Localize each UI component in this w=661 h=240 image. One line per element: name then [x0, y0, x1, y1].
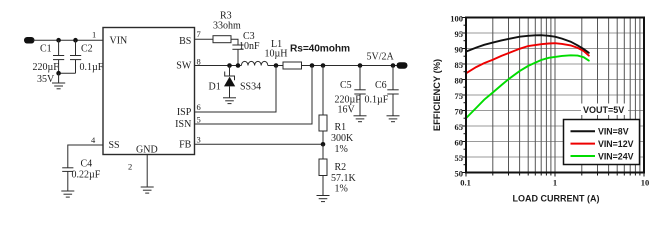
ground C5 [354, 116, 367, 122]
wire GND pin2 [146, 155, 148, 188]
svg-text:10nF: 10nF [239, 41, 260, 52]
wire FB pin3 [195, 143, 324, 145]
resistor R1 [319, 66, 327, 145]
svg-text:ISN: ISN [175, 119, 191, 130]
svg-text:1: 1 [553, 178, 557, 188]
ground input [52, 73, 65, 89]
y axis tick labels [450, 13, 463, 178]
svg-text:C6: C6 [375, 80, 387, 91]
wire SS pin4 [68, 145, 103, 168]
ground R2 [317, 196, 330, 202]
capacitor C4 [62, 168, 73, 191]
svg-text:300K: 300K [331, 133, 354, 144]
node C5 junction [358, 63, 363, 68]
node C1 top junction [56, 38, 61, 43]
svg-text:D1: D1 [209, 82, 221, 93]
svg-text:GND: GND [136, 145, 158, 156]
svg-text:SW: SW [176, 60, 192, 71]
svg-text:ISP: ISP [177, 107, 192, 118]
svg-text:4: 4 [91, 135, 96, 145]
node C3 junction [236, 63, 241, 68]
svg-text:2: 2 [128, 162, 132, 172]
svg-text:VIN=12V: VIN=12V [598, 139, 634, 149]
chart vertical gridlines [493, 18, 640, 173]
input terminal [24, 37, 35, 44]
ground C6 [387, 116, 400, 122]
svg-text:R1: R1 [335, 122, 347, 133]
svg-text:C5: C5 [340, 80, 352, 91]
svg-text:10: 10 [641, 178, 650, 188]
node C1 bottom junction [56, 71, 61, 76]
output terminal [397, 62, 408, 68]
svg-text:VIN=8V: VIN=8V [598, 127, 629, 137]
svg-text:C1: C1 [40, 44, 52, 55]
legend box [564, 120, 640, 165]
svg-text:1%: 1% [335, 184, 348, 195]
diode D1 SS34 schottky [224, 66, 235, 98]
svg-text:C2: C2 [81, 44, 93, 55]
x axis tick labels [460, 178, 649, 188]
wire C1-C2 bottom [59, 72, 76, 74]
svg-text:VOUT=5V: VOUT=5V [583, 105, 624, 115]
chart axis ticks [462, 18, 644, 177]
capacitor C3 [232, 45, 243, 66]
chart: efficiency vs load current [432, 13, 649, 203]
svg-text:5V/2A: 5V/2A [367, 52, 395, 63]
svg-text:220µF: 220µF [33, 62, 60, 73]
svg-text:70: 70 [455, 106, 464, 116]
svg-text:BS: BS [179, 36, 191, 47]
node C6 junction [391, 63, 396, 68]
node D1 junction [227, 63, 232, 68]
svg-text:FB: FB [179, 139, 192, 150]
wire BS pin7 [195, 38, 214, 40]
chart plot border [466, 18, 644, 173]
wire R3 to C3 [231, 39, 238, 45]
curve VIN=8V black [466, 35, 589, 53]
svg-text:R2: R2 [335, 162, 347, 173]
svg-text:1%: 1% [335, 144, 348, 155]
svg-text:85: 85 [455, 60, 464, 70]
node C2 top junction [73, 38, 78, 43]
curve VIN=12V red [466, 43, 589, 73]
svg-text:SS: SS [109, 140, 120, 151]
svg-text:0.1µF: 0.1µF [365, 95, 389, 106]
svg-text:Rs=40mohm: Rs=40mohm [290, 44, 350, 55]
legend line VIN=12V [571, 143, 596, 145]
svg-text:EFFICIENCY (%): EFFICIENCY (%) [432, 59, 442, 131]
svg-text:0.1µF: 0.1µF [80, 62, 104, 73]
svg-text:90: 90 [455, 44, 464, 54]
svg-text:5: 5 [197, 114, 201, 124]
op-amp U1 IC body [103, 28, 195, 155]
legend line VIN=24V [571, 155, 596, 157]
ground D1 [223, 98, 236, 104]
svg-text:VIN=24V: VIN=24V [598, 151, 634, 161]
capacitor C2 [70, 40, 81, 73]
svg-text:65: 65 [455, 122, 464, 132]
wire Rs to output [302, 65, 398, 67]
ground IC [141, 187, 154, 193]
svg-text:100: 100 [450, 13, 463, 23]
svg-text:LOAD CURRENT (A): LOAD CURRENT (A) [513, 194, 600, 204]
svg-text:SS34: SS34 [240, 82, 261, 93]
wire input rail [33, 39, 103, 41]
svg-text:6: 6 [197, 102, 201, 112]
svg-text:VIN: VIN [110, 36, 128, 47]
capacitor C5 [354, 66, 365, 116]
svg-text:1: 1 [92, 30, 96, 40]
resistor Rs [283, 62, 302, 69]
svg-text:80: 80 [455, 75, 464, 85]
svg-text:75: 75 [455, 91, 464, 101]
svg-text:C4: C4 [81, 159, 93, 170]
svg-text:10µH: 10µH [265, 49, 288, 60]
chart horizontal gridlines [466, 33, 644, 157]
node ISN tap junction [310, 63, 315, 68]
svg-text:0.22µF: 0.22µF [72, 170, 101, 181]
wire L1 to Rs [268, 65, 283, 67]
ground C4 [61, 191, 74, 197]
svg-text:55: 55 [455, 153, 464, 163]
legend line VIN=8V [571, 130, 596, 132]
svg-text:60: 60 [455, 137, 464, 147]
node ISP tap junction [274, 63, 279, 68]
label VOUT=5V [581, 104, 628, 116]
svg-text:3: 3 [197, 134, 201, 144]
capacitor C1 [53, 40, 64, 73]
svg-text:95: 95 [455, 29, 464, 39]
wire ISN [195, 66, 313, 125]
svg-text:0.1: 0.1 [460, 178, 471, 188]
svg-text:16V: 16V [338, 105, 356, 116]
capacitor C6 [387, 66, 398, 116]
svg-text:7: 7 [197, 29, 201, 39]
resistor R2 [319, 144, 327, 195]
wire ISP [195, 66, 277, 113]
wire SW rail [195, 65, 242, 67]
svg-text:33ohm: 33ohm [213, 21, 241, 32]
resistor R3 [213, 36, 231, 43]
inductor L1 [241, 61, 267, 65]
node FB junction [321, 142, 326, 147]
svg-text:57.1K: 57.1K [331, 173, 357, 184]
curve VIN=24V green [466, 55, 589, 118]
svg-text:35V: 35V [37, 74, 55, 85]
svg-text:8: 8 [197, 56, 201, 66]
node R1 top junction [321, 63, 326, 68]
